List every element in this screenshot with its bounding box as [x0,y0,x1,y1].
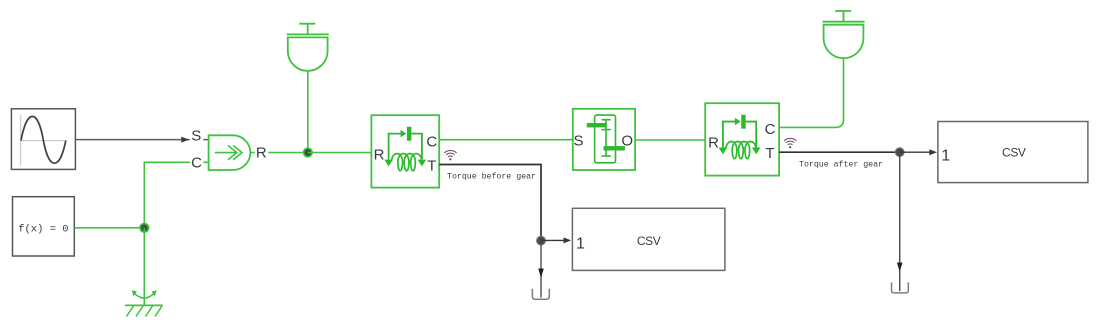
torque sensor block U4 [705,103,779,175]
label Torque after gear [799,160,883,170]
svg-text:CSV: CSV [637,234,661,248]
wire bell H1 to node A [307,71,309,153]
svg-text:T: T [427,157,436,174]
torque sensor U4 icon [719,115,761,159]
wire node A to torque block 1 R [308,152,372,154]
label Torque before gear [447,171,536,181]
solver block f(x)=0 [13,197,75,256]
svg-text:1: 1 [941,147,950,164]
svg-text:R: R [708,135,719,152]
gate R port label [255,145,268,162]
wire U2 C to gear S [439,139,573,141]
wire gate R output to node A [250,152,307,154]
gate S port label [190,127,204,144]
sensor wifi icon 1 [444,150,456,160]
svg-text:f(x) = 0: f(x) = 0 [18,224,68,236]
torque sensor U2 icon [384,127,426,171]
svg-text:O: O [621,133,633,150]
node D junction [895,148,904,157]
wire sine output to gate S input [75,137,208,143]
wire f(x) output to node B [74,227,144,229]
rotational fixed ground [125,290,163,316]
gear block U3 [573,109,635,170]
node C junction [537,236,546,245]
torque block U2 port labels R C T [374,133,438,174]
terminator bucket 2 [892,282,909,293]
svg-text:R: R [374,147,385,164]
node A junction [304,148,313,157]
svg-text:C: C [765,121,776,138]
svg-text:T: T [765,145,774,162]
housing bell H2 [823,11,865,58]
torque sensor block U2 [371,115,439,187]
wire node D to terminator 2 [897,152,903,291]
wire node B to rotational fixed [143,228,145,305]
wire node D to CSV2 input [900,149,937,155]
torque block U4 port labels R C T [708,121,775,162]
svg-text:Torque after gear: Torque after gear [799,160,883,170]
wire U4 C to bell H2 [779,58,843,127]
wire U2 T to node C [439,165,541,241]
svg-text:S: S [191,127,201,144]
sensor wifi icon 2 [784,138,796,148]
svg-text:S: S [573,133,583,150]
wire node C to CSV1 input [541,237,571,243]
svg-text:R: R [256,145,267,162]
svg-text:C: C [426,133,437,150]
wire node C to terminator 1 [538,241,544,298]
wire gear O to torque block U4 R [635,139,705,141]
svg-text:1: 1 [576,236,585,253]
CSV writer block 1 [572,208,725,270]
CSV writer block 2 [938,122,1088,183]
housing bell H1 [287,24,329,71]
svg-text:C: C [191,154,202,171]
gate C port label [190,154,204,171]
wire f(x) node to gate C input [144,162,208,228]
svg-text:Torque before gear: Torque before gear [447,171,536,181]
converter gate U1 [209,135,251,170]
wire U4 T to node D [779,151,900,153]
svg-text:CSV: CSV [1002,146,1026,160]
sine source block B1 [11,109,75,170]
node B junction [140,224,149,233]
terminator bucket 1 [532,289,549,299]
